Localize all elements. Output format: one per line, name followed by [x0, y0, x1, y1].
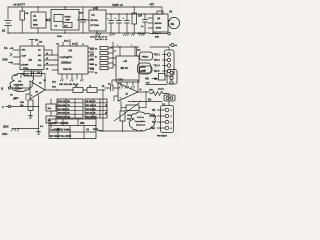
capacitor C11 box — [46, 116, 56, 128]
wire down from node — [102, 90, 104, 131]
pin TY6 — [154, 60, 168, 62]
pointer line — [114, 103, 139, 121]
label 51A+ — [56, 39, 85, 45]
capacitor C5 — [141, 14, 148, 33]
capacitor C10 box — [46, 99, 56, 116]
label 120uH — [3, 127, 9, 129]
resistor R9 — [20, 100, 33, 119]
diode D1 — [46, 18, 51, 22]
op-amp U8 — [26, 81, 45, 100]
stamp table A — [57, 99, 83, 118]
wire U1B to U2 — [77, 19, 89, 21]
resistor R1 — [20, 7, 29, 33]
speaker SP1 — [168, 11, 180, 29]
jack J4 — [2, 105, 39, 109]
capacitor C2 — [107, 14, 114, 33]
paper texture — [0, 0, 180, 139]
wire to connector J2 — [150, 47, 169, 50]
blob AUTO PLUG — [138, 63, 152, 74]
box K1 — [159, 74, 166, 81]
label COM — [2, 60, 13, 64]
relay blob TRIAD — [137, 47, 153, 60]
resistor network RN2 — [90, 52, 113, 57]
pin TY8 — [154, 55, 168, 57]
converter module U1B — [51, 7, 79, 33]
label VOH — [2, 133, 7, 136]
microcontroller U5 — [13, 40, 44, 74]
label S-1 — [40, 126, 44, 128]
capacitor C3 — [115, 14, 122, 33]
wire top +9V rail — [8, 7, 162, 14]
jack J3 — [1, 87, 15, 91]
label LF — [105, 105, 108, 115]
stamp table B — [85, 99, 107, 118]
connector plug P1 — [169, 44, 177, 48]
cloud note CL1 — [10, 73, 34, 91]
wire bottom left rail — [12, 95, 41, 135]
signal wire op-amp U8 output — [45, 87, 73, 91]
regulator U2 — [89, 7, 106, 33]
resistor R2 — [132, 7, 143, 33]
pin TM — [152, 122, 165, 124]
battery B1 — [2, 7, 12, 33]
capacitor C9 — [105, 83, 118, 92]
controller U6 — [51, 40, 98, 81]
junction dots top — [7, 6, 145, 33]
label TbL — [37, 73, 41, 75]
title block — [49, 119, 96, 139]
label +5V row mid — [95, 32, 158, 41]
resistor R10 — [73, 86, 87, 93]
capacitor C1 — [78, 7, 86, 33]
resistor network RN3 — [90, 57, 113, 62]
pin T20 — [154, 71, 168, 73]
label +2V — [149, 2, 154, 7]
wire 610 — [146, 83, 167, 85]
connector J2 — [165, 50, 175, 76]
resistor R13 — [120, 111, 132, 131]
bus wire to U7 — [112, 48, 116, 68]
connector J7 — [167, 70, 177, 85]
rounded box mab — [140, 66, 153, 73]
resistor network RN5 — [90, 67, 113, 72]
capacitor C4 — [123, 14, 130, 33]
label 24v — [137, 49, 141, 52]
wire above U7 — [110, 42, 139, 56]
ground wire bottom center — [93, 128, 142, 132]
wire BA — [128, 99, 162, 103]
pin PE2 — [151, 128, 166, 130]
label 402 with arrow — [145, 78, 157, 81]
wire op-amp U9 lower input — [114, 96, 121, 105]
pin POM — [150, 116, 166, 118]
label AB — [39, 41, 43, 44]
label whole — [158, 89, 165, 91]
wire 5V rail — [106, 13, 162, 15]
regulator U1 — [31, 7, 46, 33]
label +5V rail — [112, 3, 123, 7]
resistor network RN1 — [90, 47, 113, 52]
driver U7 — [116, 45, 139, 89]
pin TY2 — [154, 65, 168, 68]
value labels under rail — [57, 36, 160, 39]
wire ground rail top section — [8, 32, 170, 35]
label RX — [4, 47, 13, 56]
resistor R11 — [87, 86, 105, 93]
wires U5 to U6 — [44, 50, 58, 71]
op-amp U9 — [112, 80, 150, 101]
connector J6 — [162, 95, 175, 106]
label L(w — [154, 79, 158, 81]
pin VB — [152, 110, 165, 112]
feedback network R8 — [14, 71, 47, 90]
resistor R14 zigzag — [149, 90, 169, 106]
amplifier U4 — [148, 11, 168, 34]
label 2L — [102, 86, 105, 88]
capacitor C8 — [10, 85, 30, 100]
label wms — [98, 130, 103, 132]
resistor R12 — [121, 92, 146, 111]
resistor network RN4 — [90, 62, 113, 67]
label PIN GB2K — [157, 136, 167, 138]
ground hatches on rail — [96, 33, 146, 36]
label +9 BATT — [13, 3, 25, 7]
pin labels under U6 — [52, 82, 79, 87]
connector J5 — [161, 106, 174, 133]
cloud note CL2 — [129, 112, 156, 131]
label 3V — [29, 38, 38, 42]
